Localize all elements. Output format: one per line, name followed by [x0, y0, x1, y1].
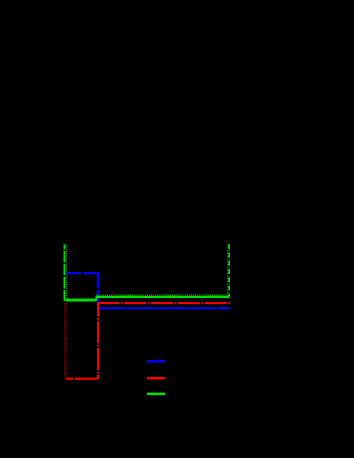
red dotted dim vertical column B (x=66.2): [65, 303, 67, 377]
red dotted dim vertical column A (x=64.7): [64, 303, 66, 377]
green dashed vertical spike right (x=229.2): [228, 244, 230, 296]
red dash-dot right horizontal: [98, 302, 231, 304]
green dashed vertical spike left (x=64.4): [63, 244, 65, 301]
blue bottom horizontal segment: [98, 307, 231, 309]
blue dashed top horizontal segment: [66, 272, 98, 274]
green solid band left: [66, 299, 97, 302]
legend red dash-dot sample: [147, 377, 165, 380]
legend blue solid sample: [147, 360, 165, 363]
green step vertical (x=96.4): [95, 295, 97, 300]
green dotted vertical spike left (x=66.4): [65, 244, 67, 298]
green band left top dent overlay: [71, 298, 90, 300]
red dim dotted stub right end (x=229.9): [229, 299, 231, 303]
red dash-dot bottom horizontal: [66, 378, 98, 380]
green long-dash right horizontal: [96, 296, 229, 298]
red dash-dot vertical step (x=98.1): [97, 303, 99, 379]
legend green solid sample: [147, 393, 165, 396]
green dotted right horizontal: [96, 294, 229, 296]
blue vertical step (x=97.9): [97, 272, 99, 308]
green dotted vertical spike right (x=227.9): [227, 244, 229, 296]
